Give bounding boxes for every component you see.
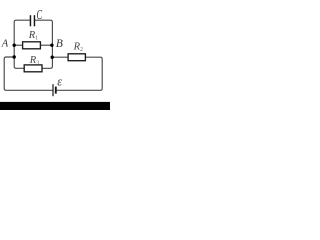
wire capacitor loop left: top-left corner down the left side to lower-branch corner — [14, 20, 30, 68]
svg-text:B: B — [56, 38, 63, 50]
capacitor C right plate — [33, 15, 35, 26]
svg-text:A: A — [1, 39, 9, 50]
wire junction to R2 — [52, 56, 68, 58]
svg-text:ε: ε — [57, 75, 62, 89]
svg-text:C: C — [37, 7, 43, 22]
capacitor C left plate — [29, 15, 31, 26]
node B junction dot — [50, 44, 53, 47]
battery long plate — [52, 84, 54, 96]
wire battery loop left: junction left, down, along bottom to battery long plate — [4, 57, 52, 90]
junction dot right (R2 branch takeoff) — [51, 56, 54, 59]
resistor R3 box — [24, 65, 42, 72]
svg-text:R3: R3 — [29, 55, 39, 67]
svg-text:R2: R2 — [73, 41, 83, 53]
node A junction dot — [13, 44, 16, 47]
svg-text:R1: R1 — [28, 30, 38, 42]
resistor R1 box — [23, 42, 41, 49]
wire R2 to right corner, down right side, along bottom to battery short plate — [57, 57, 102, 90]
black bar (page rule at image bottom) — [0, 102, 110, 110]
resistor R2 box — [68, 54, 85, 61]
wire capacitor loop right: from capacitor right plate to corner, down through B to lower-branch corner — [35, 20, 52, 68]
junction dot left (battery branch takeoff) — [13, 55, 16, 58]
wire middle branch: R1 to B — [40, 44, 52, 46]
battery short plate — [55, 87, 57, 94]
wire middle branch: A to R1 — [14, 44, 22, 46]
